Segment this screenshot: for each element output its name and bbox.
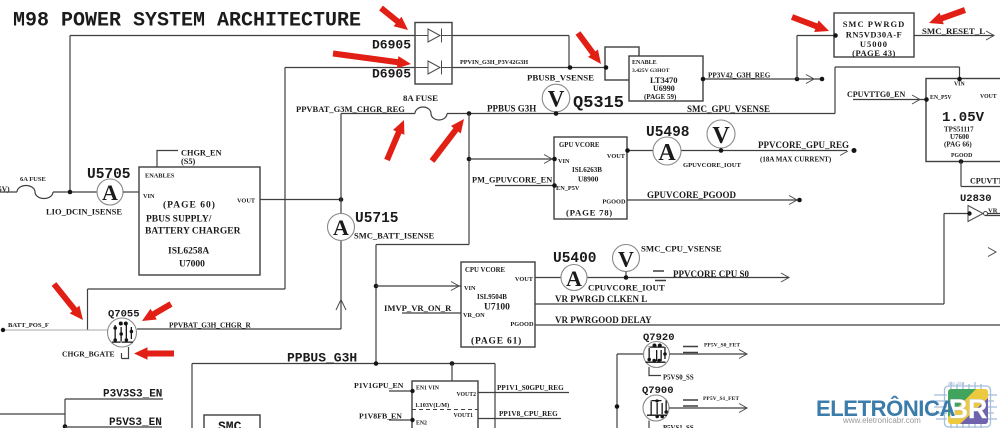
- wire P1V8FB_EN: [389, 419, 412, 421]
- IC U7000 battery charger box: [139, 167, 260, 275]
- wire CPU VOUT rail: [535, 277, 789, 279]
- svg-text:CHGR_BGATE: CHGR_BGATE: [62, 350, 115, 359]
- svg-text:VOUT: VOUT: [607, 153, 626, 160]
- node junction SMC PWRGD tap: [795, 77, 800, 82]
- IC U5000 SMC PWRGD box: [834, 13, 914, 57]
- arrow PP5V_S0_FET: [739, 350, 747, 359]
- svg-text:(PAGE 78): (PAGE 78): [566, 208, 613, 218]
- annotation arrow at D6905 top: [381, 8, 400, 24]
- annotation arrow at PBUSB node: [578, 33, 595, 56]
- wire PPBUS G3H bottom rail: [192, 364, 495, 428]
- IC SMC box: [204, 415, 260, 428]
- node end PPVCORE_GPU_REG: [852, 148, 857, 153]
- svg-text:GPU VCORE: GPU VCORE: [559, 142, 600, 149]
- annotation arrow at Q7055 left: [54, 284, 77, 312]
- svg-text:(18A MAX CURRENT): (18A MAX CURRENT): [760, 156, 832, 164]
- svg-text:PP5V_S0_FET: PP5V_S0_FET: [704, 343, 740, 349]
- node PPBUS junction: [467, 111, 472, 116]
- svg-text:VOUT: VOUT: [515, 276, 534, 283]
- wire 5V FET feed vertical: [617, 354, 644, 428]
- logo chip body: [948, 389, 988, 424]
- wire fuse to ammeter: [53, 191, 97, 193]
- svg-text:Q7900: Q7900: [642, 385, 674, 397]
- svg-text:ISL9504B: ISL9504B: [477, 293, 507, 301]
- node GPU VOUT pin: [625, 148, 630, 153]
- annotation arrow at PPBUS junction: [432, 127, 458, 161]
- svg-text:PGOOD: PGOOD: [602, 199, 626, 206]
- svg-text:(S5): (S5): [181, 157, 196, 166]
- svg-text:(PAGE 61): (PAGE 61): [471, 336, 522, 347]
- svg-text:PPBUS G3H: PPBUS G3H: [487, 104, 536, 114]
- wire DC in: [0, 191, 17, 193]
- diode D6905 bottom symbol: [415, 61, 452, 75]
- svg-text:U5400: U5400: [553, 251, 597, 267]
- svg-text:P5VS0_SS: P5VS0_SS: [663, 375, 694, 382]
- svg-text:Q7055: Q7055: [108, 309, 140, 321]
- svg-text:M98 POWER SYSTEM ARCHITECTURE: M98 POWER SYSTEM ARCHITECTURE: [13, 10, 361, 33]
- svg-text:SMC_RESET_L: SMC_RESET_L: [922, 26, 985, 36]
- svg-text:PGOOD: PGOOD: [510, 321, 534, 328]
- svg-text:LIO_DCIN_ISENSE: LIO_DCIN_ISENSE: [46, 207, 122, 217]
- arrow GPUVCORE_PGOOD: [789, 196, 797, 205]
- wire P5VS0_SS hook: [649, 367, 661, 376]
- wire diode outputs join PPVIN_G3H: [452, 36, 606, 68]
- wire IMVP_VR_ON_R: [402, 312, 461, 314]
- svg-text:ISL6263B: ISL6263B: [572, 166, 602, 174]
- svg-text:GPUVCORE_PGOOD: GPUVCORE_PGOOD: [647, 190, 736, 200]
- svg-text:(PAGE 59): (PAGE 59): [644, 93, 677, 101]
- svg-text:VOUT1: VOUT1: [453, 413, 473, 419]
- wire GPUVCORE_PGOOD: [627, 199, 799, 201]
- svg-text:VOUT: VOUT: [980, 94, 997, 100]
- node voltmeter tap: [554, 111, 559, 116]
- wire TPS PGOOD out: [961, 162, 1000, 187]
- svg-text:VIN: VIN: [954, 82, 965, 88]
- svg-text:V: V: [712, 123, 730, 149]
- node bottom rail U5715 leg: [374, 361, 379, 366]
- svg-text:VOUT: VOUT: [237, 198, 256, 205]
- buffer U2830: [968, 206, 983, 222]
- node TPS PGOOD pin: [959, 159, 964, 164]
- svg-text:SMC: SMC: [218, 419, 242, 428]
- IC U7600 TPS51117 box: [926, 79, 1000, 162]
- svg-text:PP5V_S1_FET: PP5V_S1_FET: [703, 396, 739, 402]
- svg-text:P5VS3_EN: P5VS3_EN: [109, 417, 162, 428]
- svg-text:PP1V8_CPU_REG: PP1V8_CPU_REG: [499, 410, 558, 418]
- svg-text:PP1V1_S0GPU_REG: PP1V1_S0GPU_REG: [497, 384, 564, 392]
- wire ammeter to charger VIN: [123, 191, 139, 193]
- svg-text:PBUSB_VSENSE: PBUSB_VSENSE: [527, 73, 594, 83]
- wire CHGR_BGATE hook: [122, 347, 129, 359]
- ammeter U5715: [328, 214, 355, 241]
- node SMC PWRGD input: [833, 33, 838, 38]
- svg-text:1.05V: 1.05V: [942, 110, 985, 126]
- svg-text:D6905: D6905: [372, 67, 411, 82]
- svg-text:ISL6258A: ISL6258A: [168, 247, 209, 257]
- node EN1 pin: [410, 389, 414, 393]
- svg-text:BATT_POS_F: BATT_POS_F: [8, 322, 49, 329]
- svg-text:PPVCORE_GPU_REG: PPVCORE_GPU_REG: [758, 140, 849, 150]
- wire Q7900 drain out: [669, 407, 747, 409]
- svg-text:www.eletronicabr.com: www.eletronicabr.com: [842, 416, 921, 425]
- svg-text:P1V1GPU_EN: P1V1GPU_EN: [354, 381, 404, 390]
- diode pack D6905 box: [415, 23, 452, 85]
- wire GPU VOUT rail: [627, 150, 847, 152]
- node junction at inductor input: [604, 65, 609, 70]
- wire Q7920 drain out: [670, 353, 748, 355]
- wire to SMC PWRGD: [797, 36, 834, 80]
- wire GPU VIN: [469, 158, 554, 160]
- svg-text:PPVIN_G3H_P3V42G3H: PPVIN_G3H_P3V42G3H: [460, 59, 528, 66]
- node VOUT junction: [339, 197, 344, 202]
- svg-text:U7100: U7100: [484, 303, 510, 313]
- svg-text:6A FUSE: 6A FUSE: [20, 176, 46, 183]
- node P5VS3 junction: [63, 424, 68, 428]
- wire CPUVTTG0_EN: [853, 99, 926, 101]
- tie bars Q7920: [683, 347, 698, 353]
- svg-text:V: V: [548, 87, 565, 112]
- svg-text:EN_P5V: EN_P5V: [930, 95, 952, 101]
- svg-text:PM_GPUVCORE_EN: PM_GPUVCORE_EN: [472, 176, 552, 185]
- wire PPBUS vertical trunk: [376, 114, 469, 364]
- wire P1V1GPU_EN: [389, 390, 412, 392]
- svg-text:(PAGE 43): (PAGE 43): [852, 48, 896, 58]
- svg-text:IMVP_VR_ON_R: IMVP_VR_ON_R: [384, 303, 452, 313]
- svg-text:VR PWRGOOD DELAY: VR PWRGOOD DELAY: [555, 315, 652, 325]
- node GPU VIN pin: [552, 157, 557, 162]
- annotation arrow at SMC PWRGD: [792, 17, 820, 27]
- svg-text:SMC_BATT_ISENSE: SMC_BATT_ISENSE: [354, 231, 434, 241]
- svg-text:EN2: EN2: [416, 421, 427, 427]
- annotation arrow at D6905 bottom: [333, 54, 401, 63]
- node EN2 pin: [410, 418, 414, 422]
- wire CHGR_EN: [157, 151, 178, 168]
- svg-text:U5715: U5715: [355, 211, 399, 227]
- tie bars on CPU rail: [653, 271, 666, 281]
- svg-text:ENABLES: ENABLES: [145, 173, 175, 180]
- svg-text:VIN: VIN: [464, 285, 476, 292]
- voltmeter CPU: [613, 245, 640, 272]
- arrow GPU VIN: [544, 155, 552, 164]
- logo chip traces: [931, 382, 997, 428]
- annotation arrow at SMC_RESET_L: [939, 10, 966, 20]
- svg-text:CPUVTTG: CPUVTTG: [970, 177, 1000, 186]
- svg-text:PPVBAT_G3M_CHGR_REG: PPVBAT_G3M_CHGR_REG: [296, 104, 405, 114]
- svg-text:A: A: [658, 140, 676, 166]
- svg-text:SMC PWRGD: SMC PWRGD: [843, 19, 906, 29]
- wire P5VS3_EN: [65, 426, 162, 428]
- node junction diode outputs: [568, 65, 573, 70]
- svg-text:PGOOD: PGOOD: [951, 153, 972, 159]
- svg-text:VR PWRGD CLKEN L: VR PWRGD CLKEN L: [555, 294, 647, 304]
- ammeter U5498: [653, 137, 681, 165]
- svg-text:A: A: [102, 180, 118, 205]
- wire PP1V8_CPU_REG: [478, 418, 561, 420]
- arrow CPUVTTG0_EN: [912, 95, 920, 104]
- node CPU voltmeter tap: [624, 275, 629, 280]
- node GPU voltmeter tap: [719, 148, 724, 153]
- arrow PP5V_S1_FET: [739, 404, 747, 413]
- svg-text:SMC_CPU_VSENSE: SMC_CPU_VSENSE: [641, 244, 722, 254]
- svg-text:U5498: U5498: [646, 125, 690, 141]
- IC P1V1/P1V8 dual regulator box: [412, 381, 478, 428]
- node CPU branch: [374, 284, 379, 289]
- svg-text:PP3V42_G3H_REG: PP3V42_G3H_REG: [708, 72, 771, 80]
- node GPU EN pin: [552, 183, 557, 188]
- svg-text:(PAGE 60): (PAGE 60): [163, 200, 216, 211]
- node end GPUVCORE_PGOOD: [797, 198, 802, 203]
- wire P3V3S3_EN: [0, 399, 163, 428]
- arrow right edge: [988, 248, 996, 257]
- svg-text:PPVBAT_G3H_CHGR_R: PPVBAT_G3H_CHGR_R: [169, 321, 251, 330]
- inductor box L: [605, 47, 639, 80]
- svg-text:ENABLE: ENABLE: [632, 60, 657, 66]
- annotation arrow at 8A fuse left: [387, 129, 400, 160]
- svg-text:U7000: U7000: [179, 260, 205, 270]
- wire P5VS1_SS hook: [648, 421, 650, 428]
- arrow PPVCORE_GPU_REG: [840, 151, 848, 156]
- svg-text:3.425V G3HOT: 3.425V G3HOT: [632, 68, 670, 74]
- svg-text:dits dilcr: dits dilcr: [948, 381, 965, 386]
- arrow PPVCORE CPU S0: [781, 273, 789, 282]
- wire lower branch to diode D6905 anode 2: [88, 68, 416, 331]
- node GPU branch: [467, 157, 472, 162]
- svg-text:CPUVCORE_IOUT: CPUVCORE_IOUT: [588, 283, 665, 293]
- wire PP3V42_G3H_REG: [703, 78, 822, 80]
- node bottom rail P1V1 leg: [450, 361, 455, 366]
- svg-text:SMC_GPU_VSENSE: SMC_GPU_VSENSE: [687, 104, 770, 114]
- wire VR PWRGD CLKEN L: [535, 214, 968, 305]
- transistor Q7920: [644, 342, 670, 368]
- wire PP1V1_S0GPU_REG: [478, 392, 569, 394]
- svg-text:GPUVCORE_IOUT: GPUVCORE_IOUT: [683, 162, 741, 169]
- fuse 8A: [415, 107, 447, 120]
- wire charger VOUT: [260, 199, 341, 201]
- svg-text:P1V8FB_EN: P1V8FB_EN: [359, 412, 402, 421]
- regulator U6990 LT3470 box: [629, 56, 703, 101]
- node Q7900 branch: [615, 404, 620, 409]
- wire CPU VIN: [376, 285, 461, 287]
- node TPS EN pin: [924, 97, 929, 102]
- arrow CPU VIN: [451, 282, 459, 291]
- transistor Q7900: [643, 395, 669, 421]
- wire VR_PGOOD out: [985, 214, 1000, 216]
- svg-text:Q5315: Q5315: [573, 94, 624, 113]
- svg-text:EN_P5V: EN_P5V: [556, 185, 580, 192]
- svg-text:VR_ON: VR_ON: [463, 312, 485, 319]
- wire battery rail vertical: [137, 114, 341, 330]
- svg-text:U5705: U5705: [87, 167, 131, 183]
- wire PPVBAT fuse feed: [341, 113, 415, 115]
- fuse 6A: [17, 186, 53, 199]
- svg-text:VIN: VIN: [143, 193, 155, 200]
- voltmeter GPU: [707, 120, 735, 148]
- node diode branch junction: [68, 190, 73, 195]
- svg-text:1.103V(L/M): 1.103V(L/M): [415, 402, 449, 409]
- svg-text:CPUVTTG0_EN: CPUVTTG0_EN: [847, 90, 905, 99]
- wire P1V1 box VIN stub: [451, 364, 453, 382]
- svg-text:PBUS SUPPLY/: PBUS SUPPLY/: [146, 215, 212, 225]
- svg-text:8A FUSE: 8A FUSE: [403, 93, 438, 103]
- arrow SMC_RESET_L: [986, 31, 994, 40]
- svg-text:A: A: [333, 215, 349, 240]
- tie bars Q7900: [683, 400, 698, 406]
- arrow chevron up on battery rail: [336, 300, 346, 311]
- svg-text:EN1 VIN: EN1 VIN: [416, 386, 440, 392]
- svg-text:RN5VD30A-F: RN5VD30A-F: [846, 30, 902, 40]
- svg-text:D6905: D6905: [372, 38, 411, 53]
- wire BATT_POS_F gray: [3, 329, 108, 331]
- IC U8900 GPU VCORE box: [554, 137, 627, 219]
- wire VR PWRGOOD DELAY: [535, 324, 1000, 326]
- diode D6905 top symbol: [415, 29, 452, 43]
- pin node U6990 output: [701, 77, 706, 82]
- wire top DC-in to diode D6905 anode 1: [70, 36, 415, 193]
- svg-text:U2830: U2830: [960, 193, 992, 205]
- svg-text:VIN: VIN: [558, 158, 570, 165]
- svg-text:PPBUS_G3H: PPBUS_G3H: [287, 351, 357, 366]
- svg-text:(PAG 66): (PAG 66): [944, 141, 972, 149]
- svg-text:PPVCORE CPU S0: PPVCORE CPU S0: [673, 269, 749, 279]
- arrow on PP3V42 wire: [806, 75, 814, 84]
- svg-text:V: V: [618, 247, 634, 272]
- svg-text:VOUT2: VOUT2: [456, 392, 476, 398]
- ammeter U5705: [97, 179, 123, 205]
- node end of PP3V42 wire: [820, 77, 825, 82]
- wire PM_GPUVCORE_EN: [495, 185, 554, 187]
- annotation arrow at Q7055 right: [151, 304, 171, 316]
- node TPS VIN: [957, 77, 962, 82]
- wire SMC_RESET_L: [914, 35, 994, 37]
- svg-text:U6990: U6990: [653, 84, 675, 93]
- svg-text:BATTERY CHARGER: BATTERY CHARGER: [145, 227, 241, 237]
- wire PPBUS to TPS VIN: [835, 67, 960, 114]
- wire PPBUS G3H main: [447, 113, 835, 115]
- transistor Q7055: [108, 318, 137, 347]
- ammeter U5400: [561, 265, 587, 291]
- svg-text:CPU VCORE: CPU VCORE: [465, 267, 506, 274]
- svg-text:U8900: U8900: [578, 175, 599, 184]
- annotation arrow at CHGR_BGATE: [144, 351, 174, 357]
- node buffer input: [967, 211, 971, 215]
- voltmeter Q5315: [542, 84, 570, 112]
- IC U7100 CPU VCORE box: [461, 262, 535, 347]
- svg-text:Q7920: Q7920: [643, 332, 675, 344]
- node BATT_POS_F: [1, 328, 5, 332]
- svg-text:A: A: [566, 266, 582, 291]
